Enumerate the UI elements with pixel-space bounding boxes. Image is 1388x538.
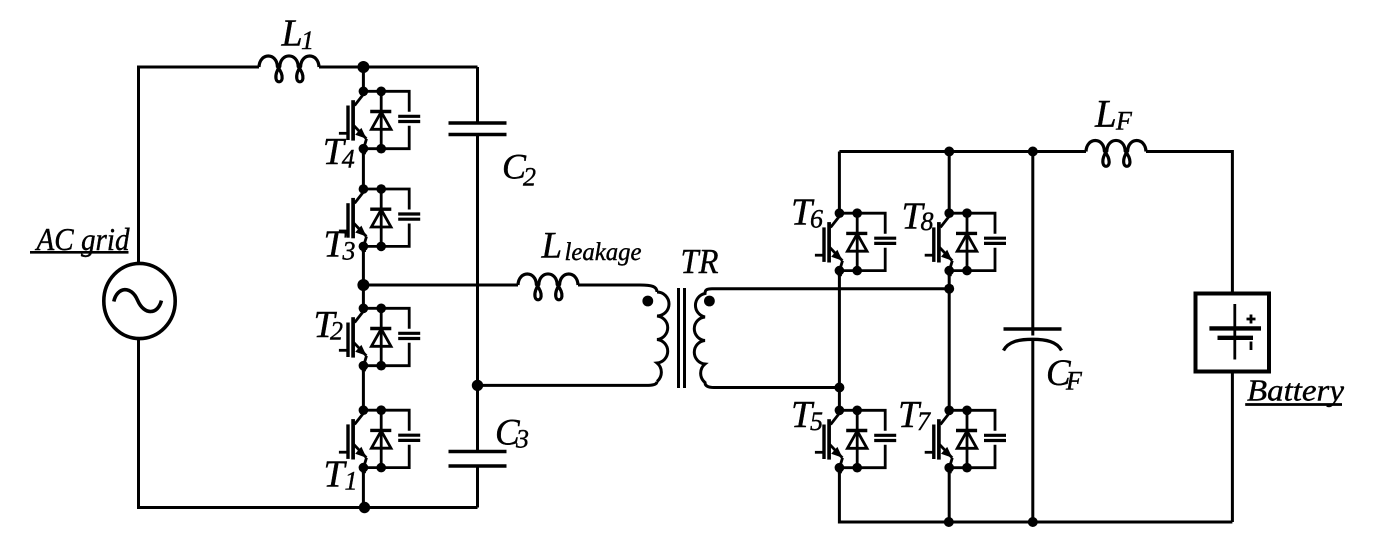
svg-text:3: 3 <box>342 236 356 265</box>
svg-text:L: L <box>1094 93 1117 136</box>
svg-text:F: F <box>1115 107 1133 136</box>
svg-text:Battery: Battery <box>1247 373 1344 408</box>
svg-text:F: F <box>1065 367 1083 396</box>
svg-text:L: L <box>281 13 303 55</box>
svg-text:L: L <box>541 226 563 267</box>
svg-text:leakage: leakage <box>565 239 642 266</box>
svg-text:6: 6 <box>810 205 823 234</box>
svg-text:1: 1 <box>345 466 358 495</box>
svg-text:2: 2 <box>523 163 536 192</box>
svg-text:2: 2 <box>330 317 343 346</box>
svg-text:8: 8 <box>921 207 934 236</box>
svg-text:4: 4 <box>342 145 355 174</box>
svg-text:TR: TR <box>681 242 719 281</box>
svg-text:5: 5 <box>810 407 823 436</box>
svg-text:7: 7 <box>917 407 931 436</box>
svg-text:1: 1 <box>301 26 314 55</box>
svg-text:3: 3 <box>515 425 529 454</box>
